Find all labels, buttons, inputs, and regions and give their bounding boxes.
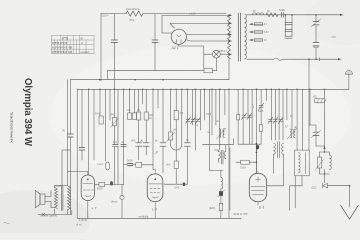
svg-text:8**8: 8**8 <box>62 36 68 40</box>
capacitor C18 <box>128 163 133 165</box>
hatched resistor on AVC line <box>324 89 326 146</box>
junction blob2 <box>183 182 186 186</box>
arrow into transformer top <box>229 14 232 16</box>
svg-text:8·9*8*8*9·8 ·98: 8·9*8*8*9·8 ·98 <box>52 46 72 50</box>
wire lamp left <box>204 53 213 55</box>
capacitor C11 <box>143 143 149 146</box>
svg-text:1M: 1M <box>173 130 176 132</box>
wire horizontal y170 <box>210 170 223 177</box>
svg-text:vorläufig: vorläufig <box>139 215 149 219</box>
bus3 left drop <box>76 89 78 218</box>
node dot <box>285 14 287 16</box>
table frame <box>52 36 95 54</box>
resistor R10 <box>99 182 105 186</box>
capacitor C15 <box>79 148 85 151</box>
svg-text:9*8*8·8*9·8: 9*8*8·8*9·8 <box>52 41 67 45</box>
svg-text:Dr: Dr <box>253 9 256 13</box>
svg-text:4V: 4V <box>264 40 267 42</box>
wire chain <box>220 189 222 218</box>
wire rectifier anode rail <box>162 16 232 34</box>
rectifier tube V1 AZ1 <box>171 29 186 44</box>
phone jack <box>121 185 123 196</box>
wire transformer bottom <box>51 80 68 215</box>
ground chassis dome <box>345 70 352 74</box>
IF transformer T3 windings <box>219 152 221 159</box>
svg-text:220V~: 220V~ <box>102 14 110 18</box>
tap 4 <box>250 39 264 41</box>
arrow tap2 <box>229 40 232 42</box>
capacitor C8 electrolytic <box>313 22 319 25</box>
svg-text:5000: 5000 <box>97 187 103 191</box>
wire speaker leads <box>38 191 72 215</box>
svg-text:6,3V: 6,3V <box>264 32 269 34</box>
capacitor C6 <box>285 36 292 38</box>
svg-text:5000: 5000 <box>258 111 264 113</box>
capacitor C2 <box>152 40 158 42</box>
wire comb verticals left group <box>81 89 83 160</box>
svg-text:(P4): (P4) <box>130 18 135 22</box>
trimmer capacitor group A <box>186 117 201 124</box>
arrow tap4l <box>250 39 253 41</box>
node dot bottom <box>315 58 317 60</box>
svg-text:(f): (f) <box>196 125 198 127</box>
svg-text:(f): (f) <box>252 107 254 109</box>
resistor R12 above tube D <box>236 143 256 173</box>
tunable coil pair left <box>217 128 227 139</box>
capacitor C16 <box>113 145 119 147</box>
output tube V2 <box>81 175 94 201</box>
arrow tap <box>229 33 232 35</box>
arrow bottom rail <box>338 58 341 60</box>
bus2 left drop <box>70 80 72 215</box>
core <box>238 13 240 61</box>
junction blob <box>110 181 113 185</box>
tunable coil pair right <box>287 129 297 140</box>
arrow tap3l <box>250 31 253 33</box>
wire comb verticals center group <box>138 89 140 160</box>
switch on bottom rail <box>274 58 282 61</box>
svg-text:(P4): (P4) <box>110 115 115 117</box>
wire after R10 <box>105 184 124 186</box>
svg-text:(A4): (A4) <box>175 186 180 190</box>
svg-text:+ 7: + 7 <box>92 207 97 211</box>
capacitor C4 <box>285 23 292 25</box>
svg-text:AZ 1: AZ 1 <box>171 46 179 50</box>
electrolytic column <box>315 15 317 59</box>
svg-text:9*: 9* <box>81 37 83 40</box>
fuse box tap2 <box>255 23 263 26</box>
frame coil box <box>295 150 310 176</box>
component box on bus1 <box>204 69 213 73</box>
svg-text:9*8*8*8*9·8 9·8: 9*8*8*8*9·8 9·8 <box>52 50 72 54</box>
resistor R11 <box>219 203 222 210</box>
svg-text:5000: 5000 <box>127 159 133 163</box>
U link <box>171 145 182 151</box>
LC tank top node <box>324 151 326 153</box>
wire top rail <box>101 13 226 15</box>
svg-text:(A): (A) <box>216 120 219 123</box>
wire diode to antenna <box>328 186 350 208</box>
tube V2 electrodes <box>87 179 89 181</box>
wire tube V2 anode top <box>68 172 88 219</box>
corner squiggle <box>4 222 10 224</box>
oscillator coil L2 <box>221 178 223 189</box>
svg-text:(fern): (fern) <box>111 200 117 204</box>
diode D1 <box>323 183 328 188</box>
table cell markings <box>52 36 90 54</box>
tube V3 electrodes <box>154 178 156 180</box>
wire comb verticals right group <box>228 89 230 218</box>
more sections appended below <box>62 79 326 218</box>
resistor R7 <box>144 112 148 120</box>
capacitor C13 <box>184 143 190 146</box>
svg-text:EFM 11 780: EFM 11 780 <box>234 212 248 216</box>
svg-text:(E3): (E3) <box>313 97 318 99</box>
wire T4 bottoms <box>267 154 284 186</box>
arrow above <box>323 146 325 149</box>
wire lamp right <box>220 53 231 55</box>
svg-text:2000: 2000 <box>206 114 212 116</box>
capacitor C9 electrolytic <box>313 43 319 46</box>
loudspeaker LS cone <box>35 190 40 208</box>
node dot top <box>315 14 317 16</box>
break mark on speaker line <box>42 213 45 215</box>
capacitor C12 <box>160 143 166 146</box>
wire to diode <box>324 174 326 183</box>
antenna symbol <box>341 205 359 219</box>
junction dots bus3 <box>88 89 326 91</box>
svg-text:0,5M: 0,5M <box>240 166 246 170</box>
wire below C1 <box>114 42 116 89</box>
wire rail 2 <box>170 24 232 29</box>
loudspeaker LS magnet <box>40 194 45 204</box>
arrow tap2l <box>250 23 253 25</box>
svg-text:± 15V: ± 15V <box>189 11 196 15</box>
tube V4 electrodes <box>251 171 265 205</box>
wire cap feeds <box>124 164 154 166</box>
cap bank verticals <box>286 15 293 36</box>
resistor R8 <box>174 111 178 120</box>
pot branch <box>317 157 321 168</box>
wire sec top tap to right rail <box>247 14 343 16</box>
output transformer T2 primary <box>55 188 58 209</box>
wire left branch <box>55 150 71 186</box>
wire tube bottom to lamp column <box>179 44 204 68</box>
arrow rail2 <box>229 22 232 24</box>
svg-text:≈4V: ≈4V <box>331 35 336 39</box>
resistor R13 <box>237 115 240 120</box>
svg-text:E 3: E 3 <box>259 206 264 210</box>
IF transformer T4 <box>274 144 276 155</box>
svg-text:(P4): (P4) <box>131 141 136 143</box>
resistor R6 <box>137 112 141 120</box>
svg-text:(4 w): (4 w) <box>76 223 82 227</box>
svg-text:4V: 4V <box>264 24 267 26</box>
mid tiny labels <box>62 97 318 167</box>
dial lamp LA1 <box>212 50 220 58</box>
tube V4 <box>249 173 266 201</box>
resistor R9 <box>174 161 178 169</box>
svg-text:MB 17: MB 17 <box>220 49 228 53</box>
fuse box tap3 <box>255 31 263 34</box>
output transformer core <box>61 186 63 211</box>
resistor R14 <box>259 125 262 131</box>
wire drop x114 <box>114 14 116 40</box>
svg-text:(A): (A) <box>121 141 124 144</box>
svg-text:(A): (A) <box>140 140 143 143</box>
wire long vertical HT <box>308 59 310 150</box>
svg-text:(P4): (P4) <box>113 142 118 144</box>
tap 3 <box>250 31 264 33</box>
tap 2 <box>250 23 264 25</box>
trimmer capacitor C21 <box>247 113 252 120</box>
T3 core <box>221 150 223 164</box>
svg-text:(E24): (E24) <box>209 206 215 210</box>
bottom rail <box>77 217 241 219</box>
svg-text:(A): (A) <box>149 117 152 120</box>
tap labels <box>264 24 269 42</box>
wire drop x155 <box>154 14 156 40</box>
wire left drop <box>100 14 102 80</box>
resistor R4 R5 pair <box>128 113 132 119</box>
secondary winding <box>245 14 247 59</box>
svg-text:Olympia 394 W: Olympia 394 W <box>22 78 34 146</box>
wire T3 top <box>215 145 226 162</box>
potentiometer P1 <box>112 118 116 126</box>
svg-text:untersch.: untersch. <box>81 51 91 54</box>
capacitor C17 <box>121 145 127 147</box>
wire grid line <box>94 184 99 186</box>
output transformer secondary <box>68 186 71 210</box>
svg-text:5000: 5000 <box>279 8 285 12</box>
bus 3 main earth bus <box>77 88 349 90</box>
bus 1 <box>107 58 216 80</box>
coil branch <box>330 155 332 169</box>
wire below frame coil <box>290 176 303 211</box>
wire cathode taps <box>186 35 232 42</box>
primary winding <box>228 14 231 59</box>
capacitor C14 <box>68 134 74 137</box>
trimmer capacitor group B <box>268 117 283 124</box>
wire AVC to tube B <box>165 183 188 185</box>
capacitor C1 <box>112 40 118 42</box>
junction dots bus2 <box>99 79 164 81</box>
tube V3 <box>147 174 163 202</box>
wire sec bottom tap rail <box>247 58 341 60</box>
capacitor C5 <box>285 29 292 31</box>
small box above tube B <box>136 163 142 168</box>
potentiometer P2 <box>169 132 173 140</box>
series cap C3 <box>281 13 283 18</box>
wire link y144.7 <box>202 139 233 145</box>
gray shield vertical <box>229 148 231 210</box>
capacitor C10 <box>136 143 142 146</box>
bus 2 <box>71 59 230 79</box>
svg-text:(P): (P) <box>62 131 65 133</box>
tuning cap C19 <box>313 132 319 135</box>
svg-text:5000: 5000 <box>95 114 101 116</box>
svg-text:Heizwiderst.: Heizwiderst. <box>126 7 140 11</box>
wire below C2 <box>154 42 156 70</box>
wire dome to bus <box>348 74 350 89</box>
svg-text:Sachsenwerk: Sachsenwerk <box>10 112 15 143</box>
trimmer dark <box>219 191 223 196</box>
svg-text:(Ger): (Ger) <box>98 163 104 166</box>
trimmer capacitor C20 <box>242 113 247 120</box>
core blob <box>256 145 259 149</box>
LC bottom node <box>320 168 330 174</box>
choke L1 on rail <box>253 13 264 15</box>
svg-text:L 3: L 3 <box>152 208 157 212</box>
svg-text:(E2): (E2) <box>312 186 317 190</box>
small oval cap <box>106 162 110 170</box>
svg-text:(A4): (A4) <box>166 164 171 167</box>
junction tick <box>318 58 320 61</box>
title Olympia 394 W <box>10 78 35 146</box>
resistor R1 mains dropper <box>126 11 143 16</box>
resistor R3 <box>99 116 103 124</box>
fuse box tap4 <box>255 39 263 42</box>
arrow lamp <box>229 53 232 55</box>
arrow right rail end <box>340 14 343 16</box>
svg-text:4·Umbr.: 4·Umbr. <box>79 218 89 222</box>
resistor R2 on rail <box>266 13 278 17</box>
